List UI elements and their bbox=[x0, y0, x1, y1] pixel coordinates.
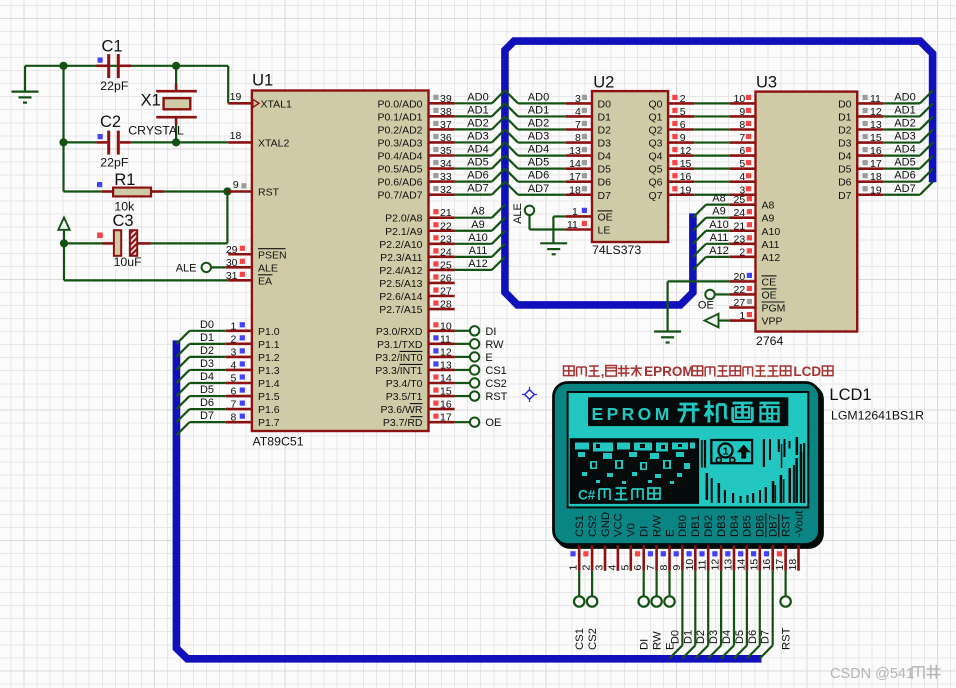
pin 4 U3 A6 bbox=[729, 171, 755, 183]
svg-text:DB3: DB3 bbox=[716, 515, 728, 537]
svg-text:P2.4/A12: P2.4/A12 bbox=[379, 265, 422, 277]
svg-text:6: 6 bbox=[230, 386, 236, 398]
wire AD4 (U3 to bus) bbox=[883, 143, 933, 156]
IC U2 74LS373 body bbox=[592, 91, 668, 242]
svg-text:35: 35 bbox=[440, 145, 452, 157]
pin label GND (LCD) bbox=[600, 512, 612, 537]
wire D0 (P1.0 to bus) bbox=[176, 331, 225, 344]
svg-text:D2: D2 bbox=[695, 630, 707, 644]
pin 12 U2 Q4 bbox=[668, 145, 694, 157]
svg-text:DB6: DB6 bbox=[755, 515, 767, 537]
LCD screen bbox=[568, 392, 809, 507]
pin 17 U2 D6 bbox=[566, 171, 592, 183]
crystal X1 bbox=[156, 66, 197, 143]
svg-text:P0.5/AD5: P0.5/AD5 bbox=[378, 164, 423, 176]
svg-text:7: 7 bbox=[230, 399, 236, 411]
svg-text:16: 16 bbox=[680, 171, 692, 183]
svg-text:11: 11 bbox=[697, 559, 709, 570]
wire A9 (U1 side) bbox=[455, 218, 505, 231]
svg-text:OE: OE bbox=[598, 211, 613, 223]
capacitor C3 (polarized 10uF) bbox=[103, 230, 151, 256]
svg-text:13: 13 bbox=[569, 145, 581, 157]
pin 30 ALE bbox=[226, 257, 252, 269]
pin 11 U2 LE bbox=[566, 219, 592, 231]
svg-text:R1: R1 bbox=[114, 171, 135, 189]
svg-text:A12: A12 bbox=[762, 252, 781, 264]
svg-text:P0.2/AD2: P0.2/AD2 bbox=[378, 124, 423, 136]
svg-text:VPP: VPP bbox=[762, 316, 783, 328]
svg-text:12: 12 bbox=[440, 346, 452, 358]
pin 3 U3 A7 bbox=[729, 184, 755, 196]
svg-text:EPROM: EPROM bbox=[644, 364, 694, 379]
svg-text:E: E bbox=[485, 352, 492, 364]
svg-text:GND: GND bbox=[600, 512, 612, 537]
svg-text:P1.6: P1.6 bbox=[258, 404, 280, 416]
svg-text:D6: D6 bbox=[598, 177, 612, 189]
svg-text:5: 5 bbox=[230, 373, 236, 385]
bus D0-D7 (P1 to LCD) bbox=[176, 340, 761, 658]
wire AD2 (U3 to bus) bbox=[883, 116, 933, 129]
sim square C3 bbox=[97, 233, 103, 239]
LCD icon box (viewer icon) bbox=[711, 440, 752, 463]
svg-text:P2.1/A9: P2.1/A9 bbox=[385, 226, 423, 238]
terminal OE (U3 side) bbox=[705, 290, 729, 299]
svg-text:18: 18 bbox=[230, 130, 242, 142]
svg-text:28: 28 bbox=[440, 299, 452, 311]
pin 1 P1.0 bbox=[226, 320, 252, 332]
junction at C3 left node bbox=[60, 239, 68, 247]
svg-text:V0: V0 bbox=[626, 523, 638, 537]
svg-text:D1: D1 bbox=[838, 111, 852, 123]
pin 4 LCD VCC bbox=[606, 545, 618, 571]
pin 7 P1.6 bbox=[226, 399, 252, 411]
pin label P3.6/WR bbox=[380, 404, 422, 417]
sim square C1 bbox=[98, 58, 103, 63]
ground (crystal net) bbox=[12, 66, 39, 103]
svg-text:D3: D3 bbox=[838, 138, 852, 150]
pin label DB1 (LCD) bbox=[690, 515, 702, 537]
wire RST-C3 vertical bbox=[226, 192, 228, 244]
wire A10 (bus to U3) bbox=[693, 231, 729, 244]
pin 16 P3.6/WR bbox=[429, 399, 455, 411]
wire AD5 (bus to U2 D5) bbox=[505, 156, 566, 169]
svg-text:EPROM: EPROM bbox=[592, 404, 673, 424]
svg-text:X1: X1 bbox=[141, 92, 161, 110]
pin 9 LCD DB0 bbox=[671, 545, 683, 571]
pin 4 P1.3 bbox=[226, 359, 252, 371]
pin 6 U2 Q2 bbox=[668, 119, 694, 131]
svg-text:P0.0/AD0: P0.0/AD0 bbox=[378, 98, 423, 110]
svg-text:XTAL1: XTAL1 bbox=[261, 98, 292, 110]
svg-text:D0: D0 bbox=[838, 98, 852, 110]
svg-text:24: 24 bbox=[734, 207, 746, 219]
wire VCC node to C3 bbox=[64, 242, 103, 244]
svg-text:6: 6 bbox=[632, 565, 644, 571]
pin label DB7 (LCD) bbox=[766, 513, 780, 537]
pin 16 U3 D4 bbox=[857, 145, 883, 157]
terminal ALE (U2 side) bbox=[525, 206, 566, 230]
svg-text:2764: 2764 bbox=[756, 334, 784, 348]
wire AD1 (bus to U2 D1) bbox=[505, 103, 566, 116]
wire AD2 (bus to U2 D2) bbox=[505, 116, 566, 129]
pin label DB6 (LCD) bbox=[755, 515, 767, 537]
pin 11 LCD DB2 bbox=[697, 545, 709, 571]
pin 8 U2 D3 bbox=[566, 132, 592, 144]
svg-text:ALE: ALE bbox=[258, 262, 278, 274]
svg-text:2: 2 bbox=[230, 333, 236, 345]
svg-text:31: 31 bbox=[226, 270, 238, 282]
pin 9 RST bbox=[227, 179, 252, 191]
svg-text:15: 15 bbox=[440, 386, 452, 398]
pin 19 U3 D7 bbox=[857, 184, 883, 196]
svg-text:D0: D0 bbox=[200, 319, 214, 331]
svg-text:9: 9 bbox=[739, 106, 745, 118]
wire U2 OE to ground bbox=[553, 216, 566, 243]
svg-text:ALE: ALE bbox=[176, 262, 197, 274]
svg-text:14: 14 bbox=[735, 559, 747, 571]
svg-text:CS2: CS2 bbox=[485, 378, 506, 390]
pin 15 U3 D3 bbox=[857, 132, 883, 144]
svg-text:XTAL2: XTAL2 bbox=[258, 137, 289, 149]
svg-text:74LS373: 74LS373 bbox=[592, 243, 641, 257]
svg-text:14: 14 bbox=[440, 373, 452, 385]
svg-text:Q3: Q3 bbox=[648, 138, 662, 150]
svg-text:D1: D1 bbox=[598, 111, 612, 123]
svg-text:A10: A10 bbox=[468, 232, 488, 244]
pin 38 P0.1/AD1 bbox=[429, 106, 455, 118]
svg-text:AD2: AD2 bbox=[894, 118, 915, 130]
svg-text:9: 9 bbox=[680, 132, 686, 144]
wire D4 (LCD DB4 to bus) bbox=[721, 571, 734, 659]
svg-text:9: 9 bbox=[233, 179, 239, 191]
pin 5 U2 Q1 bbox=[668, 106, 694, 118]
svg-text:CSDN @541: CSDN @541 bbox=[830, 666, 914, 682]
wire AD6 (bus to U2 D6) bbox=[505, 169, 566, 182]
svg-text:21: 21 bbox=[440, 207, 452, 219]
svg-text:12: 12 bbox=[710, 559, 722, 571]
svg-text:D2: D2 bbox=[838, 125, 852, 137]
pin 14 U2 D5 bbox=[566, 158, 592, 170]
pin 32 P0.7/AD7 bbox=[429, 184, 455, 196]
svg-text:16: 16 bbox=[761, 559, 773, 571]
wire AD6 (U3 to bus) bbox=[883, 169, 933, 182]
sim square R1 bbox=[97, 182, 102, 187]
svg-text:Q1: Q1 bbox=[648, 111, 662, 123]
wire AD0 (U1 side) bbox=[455, 90, 505, 103]
svg-text:LCD: LCD bbox=[793, 364, 821, 379]
wire D6 (P1.6 to bus) bbox=[176, 409, 225, 422]
pin 11 U3 D0 bbox=[857, 93, 883, 105]
pin 2 U2 Q0 bbox=[668, 93, 694, 105]
svg-text:D6: D6 bbox=[200, 397, 214, 409]
svg-text:17: 17 bbox=[774, 559, 786, 571]
svg-text:DB0: DB0 bbox=[677, 515, 689, 537]
svg-text:3: 3 bbox=[575, 93, 581, 105]
pin 39 P0.0/AD0 bbox=[429, 93, 455, 105]
pin 34 P0.5/AD5 bbox=[429, 158, 455, 170]
pin 24 U3 A9 bbox=[729, 207, 755, 219]
wire AD1 (U3 to bus) bbox=[883, 103, 933, 116]
svg-text:A12: A12 bbox=[709, 245, 729, 257]
power terminal VCC (arrow up) bbox=[58, 218, 69, 244]
svg-text:P1.2: P1.2 bbox=[258, 352, 280, 364]
pin 25 U3 A8 bbox=[729, 194, 755, 206]
svg-text:P2.7/A15: P2.7/A15 bbox=[379, 304, 422, 316]
svg-text:25: 25 bbox=[440, 259, 452, 271]
pin 18 U2 D7 bbox=[566, 184, 592, 196]
svg-text:7: 7 bbox=[645, 565, 657, 571]
svg-text:CS1: CS1 bbox=[574, 515, 586, 537]
wire A8 (bus to U3) bbox=[693, 205, 729, 218]
svg-text:4: 4 bbox=[739, 171, 745, 183]
svg-text:P3.2/INT0: P3.2/INT0 bbox=[375, 352, 422, 364]
svg-text:D2: D2 bbox=[200, 345, 214, 357]
svg-text:20: 20 bbox=[734, 271, 746, 283]
svg-text:AD3: AD3 bbox=[528, 131, 549, 143]
wire Q5-A5 (U2 to U3) bbox=[694, 168, 729, 170]
IC U3 2764 body bbox=[756, 92, 858, 332]
svg-text:P3.7/RD: P3.7/RD bbox=[383, 417, 423, 429]
svg-text:DB2: DB2 bbox=[703, 515, 715, 537]
svg-text:29: 29 bbox=[226, 244, 238, 256]
svg-text:13: 13 bbox=[870, 119, 882, 131]
wire U3 CE to ground bbox=[668, 281, 730, 331]
svg-text:5: 5 bbox=[619, 565, 631, 571]
pin 15 P3.5/T1 bbox=[429, 386, 455, 398]
svg-text:CS1: CS1 bbox=[485, 365, 506, 377]
svg-text:AD3: AD3 bbox=[467, 130, 488, 142]
svg-text:19: 19 bbox=[230, 91, 242, 103]
svg-text:ALE: ALE bbox=[512, 203, 524, 224]
svg-text:12: 12 bbox=[870, 106, 882, 118]
svg-text:DI: DI bbox=[639, 526, 651, 537]
svg-text:AD1: AD1 bbox=[467, 104, 488, 116]
svg-text:2: 2 bbox=[739, 246, 745, 258]
pin 1 U2 OE bbox=[566, 206, 592, 218]
svg-text:AD2: AD2 bbox=[528, 118, 549, 130]
svg-text:A11: A11 bbox=[469, 245, 488, 257]
resistor R1 bbox=[102, 188, 164, 197]
pin label OE (U2) bbox=[598, 211, 613, 224]
svg-text:8: 8 bbox=[575, 132, 581, 144]
svg-text:D5: D5 bbox=[838, 164, 852, 176]
svg-text:DI: DI bbox=[485, 326, 496, 338]
svg-text:D2: D2 bbox=[598, 125, 612, 137]
svg-text:16: 16 bbox=[440, 399, 452, 411]
svg-text:OE: OE bbox=[485, 417, 501, 429]
svg-text:C1: C1 bbox=[102, 38, 123, 56]
pin 16 U2 Q6 bbox=[668, 171, 694, 183]
wire A11 (bus to U3) bbox=[693, 244, 729, 257]
pin label P3.3/INT1 bbox=[375, 364, 422, 377]
watermark CSDN bbox=[830, 665, 941, 682]
svg-text:C#: C# bbox=[578, 488, 596, 503]
svg-text:D3: D3 bbox=[200, 358, 214, 370]
pin 9 U2 Q3 bbox=[668, 132, 694, 144]
svg-text:CS2: CS2 bbox=[587, 628, 599, 650]
svg-text:15: 15 bbox=[680, 158, 692, 170]
svg-text:27: 27 bbox=[734, 297, 746, 309]
svg-text:P0.7/AD7: P0.7/AD7 bbox=[378, 190, 423, 202]
pin label PGM (U3) bbox=[762, 302, 786, 315]
pin 6 U3 A4 bbox=[729, 145, 755, 157]
svg-text:P3.0/RXD: P3.0/RXD bbox=[376, 326, 423, 338]
svg-text:P1.3: P1.3 bbox=[258, 365, 280, 377]
annotation red text (boot image note) bbox=[564, 364, 834, 379]
svg-text:6: 6 bbox=[739, 145, 745, 157]
wire A12 (bus to U3) bbox=[693, 257, 729, 270]
pin 22 P2.1/A9 bbox=[429, 220, 455, 232]
svg-text:AD1: AD1 bbox=[528, 104, 549, 116]
svg-text:25: 25 bbox=[734, 194, 746, 206]
wire A12 (U1 side) bbox=[455, 257, 505, 270]
pin 14 LCD DB5 bbox=[735, 545, 747, 571]
svg-text:11: 11 bbox=[870, 93, 881, 105]
svg-text:38: 38 bbox=[440, 106, 452, 118]
pin 14 P3.4/T0 bbox=[429, 373, 455, 385]
svg-text:1: 1 bbox=[230, 320, 236, 332]
wire AD3 (bus to U2 D3) bbox=[505, 130, 566, 143]
svg-text:P2.3/A11: P2.3/A11 bbox=[380, 252, 423, 264]
svg-text:13: 13 bbox=[723, 559, 735, 571]
svg-text:AD4: AD4 bbox=[894, 144, 915, 156]
svg-text:DI: DI bbox=[639, 639, 651, 650]
terminal CS1 (LCD side) bbox=[574, 571, 584, 607]
svg-text:23: 23 bbox=[734, 233, 746, 245]
pin label R/W (LCD) bbox=[651, 515, 663, 537]
svg-text:Q2: Q2 bbox=[648, 125, 662, 137]
pin 5 U3 A5 bbox=[729, 158, 755, 170]
wire D7 (P1.7 to bus) bbox=[176, 422, 225, 435]
wire D2 (P1.2 to bus) bbox=[176, 357, 225, 370]
pin 10 LCD DB1 bbox=[684, 545, 696, 571]
svg-text:U3: U3 bbox=[756, 74, 777, 92]
svg-text:D6: D6 bbox=[838, 177, 852, 189]
svg-text:P3.1/TXD: P3.1/TXD bbox=[377, 339, 423, 351]
pin 2 P1.1 bbox=[226, 333, 252, 345]
svg-text:D5: D5 bbox=[200, 384, 214, 396]
svg-text:D1: D1 bbox=[682, 630, 694, 644]
pin 33 P0.6/AD6 bbox=[429, 171, 455, 183]
pin label EA bbox=[258, 275, 273, 288]
svg-text:Q4: Q4 bbox=[648, 151, 662, 163]
wire D0 (LCD DB0 to bus) bbox=[669, 571, 682, 659]
pin 13 U2 D4 bbox=[566, 145, 592, 157]
svg-text:CS1: CS1 bbox=[574, 628, 586, 650]
svg-text:A8: A8 bbox=[471, 206, 484, 218]
terminal E (LCD side) bbox=[664, 571, 674, 607]
svg-text:CE: CE bbox=[762, 276, 777, 288]
svg-text:P0.3/AD3: P0.3/AD3 bbox=[378, 137, 423, 149]
svg-text:P2.2/A10: P2.2/A10 bbox=[379, 239, 422, 251]
pin 22 U3 OE bbox=[729, 284, 755, 296]
svg-text:33: 33 bbox=[440, 171, 452, 183]
svg-text:A9: A9 bbox=[712, 206, 725, 218]
svg-text:P0.6/AD6: P0.6/AD6 bbox=[378, 177, 423, 189]
svg-text:6: 6 bbox=[680, 119, 686, 131]
LCD title bar EPROM boot text bbox=[588, 397, 788, 426]
wire D3 (LCD DB3 to bus) bbox=[708, 571, 721, 659]
svg-text:4: 4 bbox=[606, 565, 618, 571]
svg-text:P0.1/AD1: P0.1/AD1 bbox=[378, 111, 423, 123]
wire D2 (LCD DB2 to bus) bbox=[695, 571, 708, 659]
svg-text:5: 5 bbox=[680, 106, 686, 118]
terminal CS2 (U1 side) bbox=[455, 378, 480, 387]
pin 27 P2.6/A14 bbox=[429, 286, 455, 298]
svg-text:C2: C2 bbox=[100, 113, 121, 131]
pin 5 LCD V0 bbox=[619, 545, 631, 571]
pin 1 LCD CS1 bbox=[568, 545, 580, 571]
svg-text:15: 15 bbox=[870, 132, 882, 144]
pin 8 P1.7 bbox=[226, 412, 252, 424]
svg-text:17: 17 bbox=[440, 412, 452, 424]
pin 21 U3 A10 bbox=[729, 220, 755, 232]
pin label PSEN bbox=[258, 249, 287, 262]
LCD title glyph JI bbox=[705, 401, 728, 423]
svg-text:19: 19 bbox=[870, 184, 882, 196]
wire AD6 (U1 side) bbox=[455, 169, 505, 182]
svg-text:AD7: AD7 bbox=[894, 183, 915, 195]
wire AD4 (bus to U2 D4) bbox=[505, 143, 566, 156]
pin label -Vout (LCD) bbox=[793, 510, 805, 537]
wire GND-C1-XTAL1 top rail bbox=[25, 66, 228, 104]
svg-text:P1.7: P1.7 bbox=[258, 417, 280, 429]
pin 7 U2 D2 bbox=[566, 119, 592, 131]
pin 23 P2.2/A10 bbox=[429, 233, 455, 245]
pin 3 U2 D0 bbox=[566, 93, 592, 105]
svg-text:AD5: AD5 bbox=[528, 157, 549, 169]
wire AD3 (U3 to bus) bbox=[883, 130, 933, 143]
svg-text:D7: D7 bbox=[838, 190, 852, 202]
pin 13 P3.3/INT1 bbox=[429, 359, 455, 371]
svg-text:26: 26 bbox=[440, 272, 452, 284]
pin label DB4 (LCD) bbox=[729, 515, 741, 537]
wire AD7 (U3 to bus) bbox=[883, 182, 933, 195]
pin 19 XTAL1 bbox=[228, 91, 259, 107]
wire D1 (LCD DB1 to bus) bbox=[682, 571, 695, 659]
capacitor C2 bbox=[96, 131, 130, 155]
svg-text:24: 24 bbox=[440, 246, 452, 258]
svg-text:,: , bbox=[601, 364, 605, 379]
pin 11 P3.1/TXD bbox=[429, 333, 455, 345]
wire D3 (P1.3 to bus) bbox=[176, 370, 225, 383]
svg-text:D7: D7 bbox=[760, 630, 772, 644]
pin 26 P2.5/A13 bbox=[429, 272, 455, 284]
pin 3 P1.2 bbox=[226, 346, 252, 358]
pin 10 P3.0/RXD bbox=[429, 320, 455, 332]
pin label DB0 (LCD) bbox=[677, 515, 689, 537]
pin label CE (U3) bbox=[762, 276, 777, 289]
svg-text:12: 12 bbox=[680, 145, 692, 157]
pin label V0 (LCD) bbox=[626, 523, 638, 537]
svg-text:34: 34 bbox=[440, 158, 452, 170]
svg-text:D3: D3 bbox=[598, 138, 612, 150]
svg-text:D4: D4 bbox=[200, 371, 214, 383]
pin label P3.7/RD bbox=[383, 417, 423, 430]
svg-text:1: 1 bbox=[723, 446, 729, 458]
svg-text:DB7: DB7 bbox=[768, 515, 780, 537]
svg-text:3: 3 bbox=[594, 565, 606, 571]
svg-text:P3.5/T1: P3.5/T1 bbox=[386, 391, 423, 403]
wire D4 (P1.4 to bus) bbox=[176, 383, 225, 396]
pin label DI (LCD) bbox=[639, 526, 651, 537]
svg-text:P3.3/INT1: P3.3/INT1 bbox=[375, 365, 422, 377]
LCD photo caption C# text bbox=[578, 488, 660, 503]
pin 17 LCD RST bbox=[774, 545, 786, 571]
pin 29 PSEN bbox=[226, 244, 252, 256]
svg-text:37: 37 bbox=[440, 119, 452, 131]
pin label OE pin (U3) bbox=[762, 289, 777, 302]
